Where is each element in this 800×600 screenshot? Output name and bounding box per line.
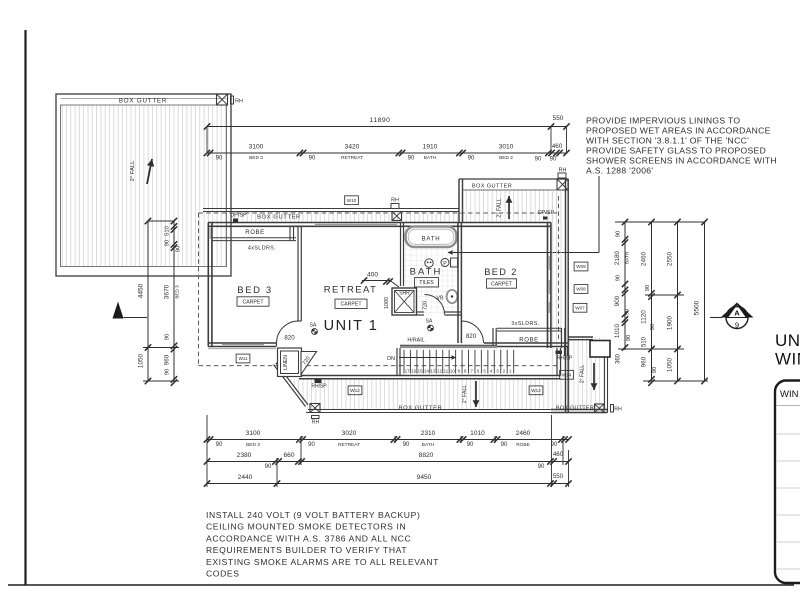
bottom gutter outer line bbox=[306, 412, 551, 414]
svg-text:W11: W11 bbox=[238, 356, 248, 361]
svg-text:PROVIDE IMPERVIOUS LININGS TO: PROVIDE IMPERVIOUS LININGS TO bbox=[586, 116, 740, 126]
svg-text:11: 11 bbox=[444, 368, 449, 373]
left dim chain 3670 bed3 bbox=[173, 221, 175, 381]
rainwater head x-box top middle bbox=[392, 212, 402, 221]
svg-text:BATH: BATH bbox=[625, 252, 630, 264]
svg-text:WIN: WIN bbox=[780, 389, 799, 400]
svg-text:90: 90 bbox=[176, 246, 182, 252]
svg-text:17: 17 bbox=[405, 368, 410, 373]
svg-text:510: 510 bbox=[642, 336, 648, 347]
window schedule table bbox=[775, 381, 800, 584]
svg-text:SHOWER SCREENS IN ACCORDANCE W: SHOWER SCREENS IN ACCORDANCE WITH bbox=[586, 156, 777, 166]
svg-text:WITH SECTION '3.8.1.1' OF THE: WITH SECTION '3.8.1.1' OF THE 'NCC' bbox=[586, 136, 749, 146]
svg-text:RETREAT: RETREAT bbox=[338, 442, 360, 448]
svg-text:90: 90 bbox=[550, 157, 557, 163]
svg-text:BED 3: BED 3 bbox=[175, 285, 180, 299]
svg-text:1910: 1910 bbox=[423, 144, 438, 151]
schedule row line 1 bbox=[777, 433, 800, 435]
svg-text:ACCORDANCE WITH A.S. 3786 AND: ACCORDANCE WITH A.S. 3786 AND ALL NCC bbox=[206, 533, 411, 543]
wall retreat bath bbox=[400, 223, 402, 287]
svg-text:90: 90 bbox=[501, 442, 508, 448]
svg-text:BATH: BATH bbox=[424, 155, 437, 161]
svg-text:400: 400 bbox=[367, 272, 378, 279]
svg-text:UNIT 1: UNIT 1 bbox=[324, 318, 379, 334]
wall bed3 retreat bbox=[297, 226, 299, 321]
svg-text:90: 90 bbox=[625, 309, 631, 315]
page border bottom edge bbox=[8, 584, 794, 586]
svg-text:W14: W14 bbox=[562, 372, 572, 377]
right dim chain bath heights bbox=[624, 222, 626, 350]
svg-text:2380: 2380 bbox=[237, 452, 252, 459]
svg-text:4450: 4450 bbox=[138, 283, 145, 298]
svg-text:RETREAT: RETREAT bbox=[341, 155, 363, 161]
svg-text:DN: DN bbox=[387, 356, 395, 362]
tiles label bbox=[415, 278, 439, 287]
svg-text:BED 2: BED 2 bbox=[484, 267, 518, 277]
svg-text:2440: 2440 bbox=[238, 474, 253, 481]
svg-text:BATH: BATH bbox=[422, 237, 441, 243]
window W13 label bbox=[529, 386, 543, 395]
svg-text:W13: W13 bbox=[531, 388, 541, 393]
svg-text:PROPOSED WET AREAS IN ACCORDAN: PROPOSED WET AREAS IN ACCORDANCE bbox=[586, 126, 771, 136]
svg-text:90: 90 bbox=[165, 334, 171, 340]
robe bed2 walls bbox=[492, 328, 494, 348]
svg-text:15: 15 bbox=[418, 368, 423, 373]
door bed3 swing bbox=[277, 321, 299, 343]
wc toilet bbox=[425, 259, 433, 267]
window W07 label bbox=[573, 303, 587, 312]
svg-text:SA: SA bbox=[310, 323, 317, 329]
svg-text:UNIT 1: UNIT 1 bbox=[775, 331, 800, 350]
schedule row line 6 bbox=[777, 568, 800, 570]
svg-text:LINEN: LINEN bbox=[283, 355, 289, 370]
svg-text:90: 90 bbox=[467, 442, 474, 448]
rainwater head top-left roof bbox=[217, 94, 228, 105]
window W08 label bbox=[574, 285, 588, 294]
carpet label bed2 bbox=[487, 279, 517, 288]
svg-text:90: 90 bbox=[616, 231, 622, 237]
svg-text:BATH: BATH bbox=[410, 267, 443, 278]
svg-text:A.S. 1288 '2006': A.S. 1288 '2006' bbox=[586, 166, 653, 176]
svg-text:2460: 2460 bbox=[641, 251, 648, 266]
svg-text:550: 550 bbox=[553, 115, 564, 122]
right eave hatch bbox=[551, 190, 566, 337]
svg-text:CEILING MOUNTED SMOKE DETECTOR: CEILING MOUNTED SMOKE DETECTORS IN bbox=[206, 522, 406, 532]
dashed roofline top bbox=[199, 212, 559, 214]
svg-text:1050: 1050 bbox=[138, 353, 145, 368]
svg-text:CARPET: CARPET bbox=[491, 281, 513, 287]
svg-text:A: A bbox=[734, 309, 740, 318]
dimension chain bottom room widths bbox=[207, 439, 569, 441]
section marker A9 bbox=[721, 303, 754, 318]
svg-text:8820: 8820 bbox=[419, 452, 434, 459]
svg-text:9450: 9450 bbox=[417, 474, 432, 481]
svg-text:1900: 1900 bbox=[667, 315, 674, 330]
svg-text:90: 90 bbox=[650, 324, 656, 330]
svg-text:BOX GUTTER: BOX GUTTER bbox=[119, 97, 167, 104]
window W09 in east wall bbox=[548, 256, 550, 270]
svg-text:90: 90 bbox=[616, 275, 622, 281]
svg-text:90: 90 bbox=[309, 156, 316, 162]
svg-text:510: 510 bbox=[165, 226, 171, 236]
right dim chain 2460 1120 bbox=[651, 222, 653, 381]
roof terrace outer outline bbox=[56, 94, 231, 276]
door bath swing bbox=[425, 295, 445, 315]
svg-text:W08: W08 bbox=[576, 287, 586, 292]
svg-text:1050: 1050 bbox=[667, 357, 674, 372]
right roof edge bbox=[565, 179, 567, 413]
svg-text:1010: 1010 bbox=[614, 323, 621, 338]
svg-text:H/RAIL: H/RAIL bbox=[407, 338, 424, 344]
shower bbox=[392, 288, 417, 315]
dimension 11890 overall top bbox=[207, 126, 551, 128]
east wall bed2 bbox=[547, 223, 549, 349]
bottom wall bed3 bbox=[208, 342, 276, 344]
north arrow bbox=[113, 302, 124, 319]
svg-text:W07: W07 bbox=[575, 305, 585, 310]
lower right roof hatch bbox=[551, 337, 604, 410]
svg-text:10: 10 bbox=[450, 368, 455, 373]
svg-text:2° FALL: 2° FALL bbox=[130, 160, 136, 181]
dimension line 2440 9450 550 bbox=[207, 483, 569, 485]
handrail line bbox=[400, 345, 497, 348]
left dim connector top bbox=[148, 220, 174, 222]
svg-text:1010: 1010 bbox=[470, 430, 485, 437]
top exterior wall bbox=[208, 222, 551, 224]
extension lines bottom dims bbox=[206, 415, 208, 487]
svg-text:13: 13 bbox=[431, 368, 436, 373]
bath wall south bbox=[417, 311, 425, 313]
svg-text:3420: 3420 bbox=[345, 144, 360, 151]
lower right roof bottom gutter edge bbox=[551, 409, 608, 411]
svg-text:2180: 2180 bbox=[614, 250, 621, 265]
section marker leader line bbox=[710, 317, 722, 319]
wall bath bed2 bbox=[457, 223, 459, 344]
svg-text:90: 90 bbox=[216, 156, 223, 162]
svg-text:3xSLDRS.: 3xSLDRS. bbox=[511, 321, 539, 327]
svg-text:2° FALL: 2° FALL bbox=[497, 198, 503, 217]
svg-text:11890: 11890 bbox=[370, 117, 391, 124]
2 deg fall arrow bed2 roof bbox=[508, 196, 510, 219]
svg-text:CARPET: CARPET bbox=[242, 299, 264, 305]
rainwater head x-box bottom left bbox=[310, 404, 320, 413]
svg-text:BOX GUTTER: BOX GUTTER bbox=[556, 406, 594, 412]
svg-text:2550: 2550 bbox=[667, 251, 674, 266]
svg-text:460: 460 bbox=[553, 451, 564, 458]
svg-text:1080: 1080 bbox=[384, 297, 390, 309]
svg-text:660: 660 bbox=[283, 452, 294, 459]
dimension 550 top right bbox=[551, 126, 567, 128]
rh/sp label right bbox=[556, 351, 563, 355]
svg-text:3020: 3020 bbox=[342, 430, 357, 437]
south wall robe and hall bbox=[484, 342, 568, 344]
svg-text:RH/SP: RH/SP bbox=[557, 356, 573, 362]
svg-text:2310: 2310 bbox=[421, 430, 436, 437]
svg-text:90: 90 bbox=[165, 369, 171, 375]
svg-text:5500: 5500 bbox=[694, 300, 701, 315]
left dim connector bottom bbox=[143, 380, 179, 382]
window W11 lines bbox=[222, 344, 264, 346]
window W08 in east wall bbox=[548, 280, 550, 294]
window in top wall above retreat bbox=[315, 223, 397, 225]
roof terrace inner outline bbox=[61, 105, 227, 267]
svg-text:INSTALL 240 VOLT (9 VOLT BATTE: INSTALL 240 VOLT (9 VOLT BATTERY BACKUP) bbox=[206, 510, 420, 520]
svg-text:BED 3: BED 3 bbox=[237, 285, 272, 296]
svg-text:RETREAT: RETREAT bbox=[324, 285, 377, 296]
svg-text:BATH: BATH bbox=[422, 442, 435, 448]
svg-text:9: 9 bbox=[735, 321, 739, 330]
svg-text:90: 90 bbox=[165, 240, 171, 246]
bathtub bbox=[406, 227, 457, 248]
svg-text:90: 90 bbox=[551, 442, 558, 448]
window W07 in east wall bbox=[548, 302, 550, 313]
svg-text:90: 90 bbox=[403, 442, 410, 448]
svg-text:WINDOW: WINDOW bbox=[775, 350, 800, 369]
svg-text:BOX GUTTER: BOX GUTTER bbox=[472, 184, 512, 190]
svg-text:RH: RH bbox=[312, 420, 320, 426]
2 deg fall arrow top-left roof bbox=[147, 159, 152, 184]
svg-text:BOX GUTTER: BOX GUTTER bbox=[399, 406, 443, 412]
right dim chain 2550 1900 1050 bbox=[677, 222, 679, 381]
svg-text:90: 90 bbox=[535, 157, 542, 163]
right dim chain 5500 overall bbox=[704, 222, 706, 381]
top eave gutter hatch bbox=[231, 212, 459, 223]
wall end cap bed3 door bbox=[298, 320, 301, 322]
svg-text:820: 820 bbox=[284, 335, 295, 342]
schedule row line 3 bbox=[777, 487, 800, 489]
dimension chain top room widths bbox=[207, 152, 567, 154]
svg-text:2460: 2460 bbox=[516, 430, 531, 437]
schedule row line 4 bbox=[777, 514, 800, 516]
window W14 label bbox=[560, 370, 574, 379]
svg-text:RH/SP: RH/SP bbox=[311, 384, 327, 390]
svg-text:RH: RH bbox=[235, 99, 243, 105]
svg-text:90: 90 bbox=[468, 156, 475, 162]
svg-text:SHR: SHR bbox=[399, 291, 410, 297]
svg-text:3010: 3010 bbox=[499, 144, 514, 151]
bed2 roof outline bbox=[458, 179, 460, 222]
bath tiles floor bbox=[404, 227, 458, 313]
door bed2 swing bbox=[462, 321, 484, 343]
svg-text:90: 90 bbox=[308, 442, 315, 448]
svg-text:16: 16 bbox=[411, 368, 416, 373]
stair treads bbox=[403, 350, 405, 374]
window sill line left bbox=[208, 348, 276, 350]
window W10 label bbox=[345, 196, 359, 205]
dashed roofline left bbox=[198, 213, 200, 366]
svg-text:4xSLDRS.: 4xSLDRS. bbox=[248, 246, 276, 252]
window in left wall robe bbox=[209, 228, 211, 239]
svg-text:BED 3: BED 3 bbox=[246, 442, 260, 448]
svg-text:820: 820 bbox=[466, 333, 477, 340]
right dim connectors bbox=[645, 294, 684, 296]
linen closet bbox=[278, 348, 302, 377]
svg-text:BOX GUTTER: BOX GUTTER bbox=[257, 215, 301, 221]
vanity basin bbox=[447, 290, 458, 303]
schedule row line 2 bbox=[777, 460, 800, 462]
svg-text:90: 90 bbox=[538, 464, 545, 470]
svg-text:VB: VB bbox=[437, 296, 444, 302]
svg-text:90: 90 bbox=[408, 156, 415, 162]
svg-text:460: 460 bbox=[552, 143, 563, 150]
svg-text:360: 360 bbox=[616, 353, 622, 364]
svg-text:ROBE: ROBE bbox=[516, 442, 530, 448]
stairwell left wall bbox=[396, 348, 398, 376]
svg-text:90: 90 bbox=[265, 464, 272, 470]
left exterior wall bbox=[207, 223, 209, 347]
svg-text:CARPET: CARPET bbox=[340, 302, 362, 308]
svg-text:W10: W10 bbox=[347, 198, 357, 203]
roof edge line above top wall bbox=[203, 208, 459, 210]
svg-text:PROVIDE SAFETY GLASS TO PROPOS: PROVIDE SAFETY GLASS TO PROPOSED bbox=[586, 146, 766, 156]
svg-text:720: 720 bbox=[423, 301, 429, 310]
left dim chain 4450 1050 bbox=[147, 221, 149, 381]
svg-text:2° FALL: 2° FALL bbox=[580, 365, 586, 384]
lower right roof top edge bbox=[568, 336, 593, 338]
svg-text:3670: 3670 bbox=[164, 284, 171, 299]
bottom gutter hatch bbox=[289, 379, 551, 410]
stair hall bottom wall bbox=[299, 375, 561, 377]
dimension line 2380 660 8820 460 bbox=[207, 461, 569, 463]
door 720 hall triangle bbox=[301, 352, 317, 375]
svg-text:900: 900 bbox=[614, 295, 621, 306]
window W12 label bbox=[348, 386, 362, 395]
svg-text:BED 2: BED 2 bbox=[499, 155, 513, 161]
dashed roofline bottom bbox=[199, 365, 559, 367]
svg-text:3100: 3100 bbox=[246, 430, 261, 437]
svg-text:BED 3: BED 3 bbox=[249, 155, 263, 161]
svg-text:90: 90 bbox=[626, 335, 632, 341]
carpet label bed3 bbox=[237, 297, 269, 306]
schedule row line 5 bbox=[777, 541, 800, 543]
svg-text:14: 14 bbox=[424, 368, 429, 373]
svg-text:ROBE: ROBE bbox=[245, 230, 264, 236]
svg-text:P: P bbox=[443, 261, 447, 267]
robe bed3 sliding doors 4xSLDRS bbox=[213, 237, 297, 239]
window W09 label bbox=[574, 262, 588, 271]
svg-text:2° FALL: 2° FALL bbox=[462, 385, 468, 404]
svg-text:3100: 3100 bbox=[249, 144, 264, 151]
svg-text:W12: W12 bbox=[350, 388, 360, 393]
svg-text:960: 960 bbox=[641, 356, 648, 367]
svg-text:TILES: TILES bbox=[419, 280, 434, 286]
svg-text:1120: 1120 bbox=[641, 310, 648, 324]
right dim connector top bbox=[615, 221, 705, 223]
svg-text:90: 90 bbox=[645, 285, 651, 291]
roof terrace hatch bbox=[61, 105, 227, 267]
splayed corner wall bbox=[274, 365, 306, 407]
svg-text:RH: RH bbox=[391, 198, 399, 204]
svg-text:EXISTING SMOKE ALARMS ARE TO A: EXISTING SMOKE ALARMS ARE TO ALL RELEVAN… bbox=[206, 557, 439, 567]
svg-text:12: 12 bbox=[437, 368, 442, 373]
page border left edge bbox=[24, 30, 26, 585]
svg-text:90: 90 bbox=[216, 442, 223, 448]
svg-text:RH: RH bbox=[614, 407, 622, 413]
landing right wall bbox=[556, 348, 558, 376]
carpet label retreat bbox=[335, 299, 367, 308]
svg-text:550: 550 bbox=[553, 473, 564, 480]
extension lines top dims bbox=[206, 127, 208, 154]
svg-text:W09: W09 bbox=[576, 264, 586, 269]
svg-text:CODES: CODES bbox=[206, 569, 240, 579]
rainwater head x-box bed2 roof bbox=[557, 179, 568, 190]
column box lower right roof bbox=[590, 341, 610, 358]
exhaust fan symbol bbox=[441, 259, 449, 267]
dashed roofline right bbox=[558, 196, 560, 340]
leader line from note to bath bbox=[598, 176, 600, 253]
svg-text:REQUIREMENTS BUILDER TO VERIFY: REQUIREMENTS BUILDER TO VERIFY THAT bbox=[206, 545, 407, 555]
svg-text:90: 90 bbox=[652, 367, 658, 373]
svg-text:SA: SA bbox=[426, 319, 433, 325]
svg-text:960: 960 bbox=[164, 354, 171, 365]
rainwater head x-box bottom right bbox=[595, 404, 605, 413]
window W11 label bbox=[236, 354, 250, 363]
bed2 roof hatch bbox=[463, 190, 566, 222]
